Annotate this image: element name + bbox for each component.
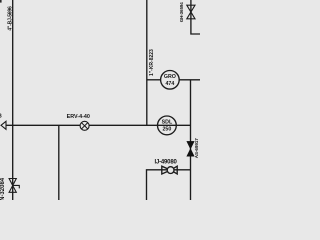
valve IJ-49080 (ball valve): [162, 166, 177, 174]
wire: main horizontal pipe: [6, 124, 191, 126]
svg-text:ERV-4-40: ERV-4-40: [67, 114, 90, 120]
node: corner artifact top-left: [0, 0, 2, 3]
svg-text:SDL: SDL: [162, 120, 173, 126]
wire: stub to GRO instrument: [147, 79, 161, 81]
svg-text:AS-69917: AS-69917: [194, 138, 199, 158]
svg-text:474: 474: [165, 81, 174, 87]
valve GH-36594 (gate valve, top right): [187, 5, 195, 19]
svg-text:4"-BJ-5696: 4"-BJ-5696: [7, 6, 13, 31]
instrument GRO 474: [161, 71, 180, 90]
svg-text:GRO: GRO: [164, 74, 176, 80]
valve AS-69917 (solid valve, right): [187, 141, 194, 156]
node: main line left arrow: [1, 121, 6, 129]
svg-text:1"-KR-8223: 1"-KR-8223: [149, 49, 155, 76]
instrument SDL 250: [158, 116, 177, 135]
valve N-32084 (gate valve with lever, lower left): [9, 179, 19, 193]
svg-text:B: B: [0, 114, 2, 120]
wire: vertical pipe 1"-KR-8223 right: [146, 0, 148, 125]
valve ERV-4-40 (crossed circle): [80, 121, 89, 130]
svg-text:GH-36594: GH-36594: [179, 2, 184, 23]
wire: lower right branch with elbow down: [147, 170, 191, 200]
svg-text:N-32084: N-32084: [0, 177, 6, 200]
wire: vertical branch pipe center: [58, 125, 60, 200]
svg-text:250: 250: [162, 126, 171, 132]
wire: right vertical pipe: [190, 80, 192, 200]
wire: top right pipe with elbow: [191, 0, 200, 34]
wire: vertical pipe 4"-BJ-5696 left, full height: [12, 0, 14, 200]
svg-text:IJ-49080: IJ-49080: [155, 159, 178, 165]
wire: GRO line to right edge: [179, 79, 200, 81]
